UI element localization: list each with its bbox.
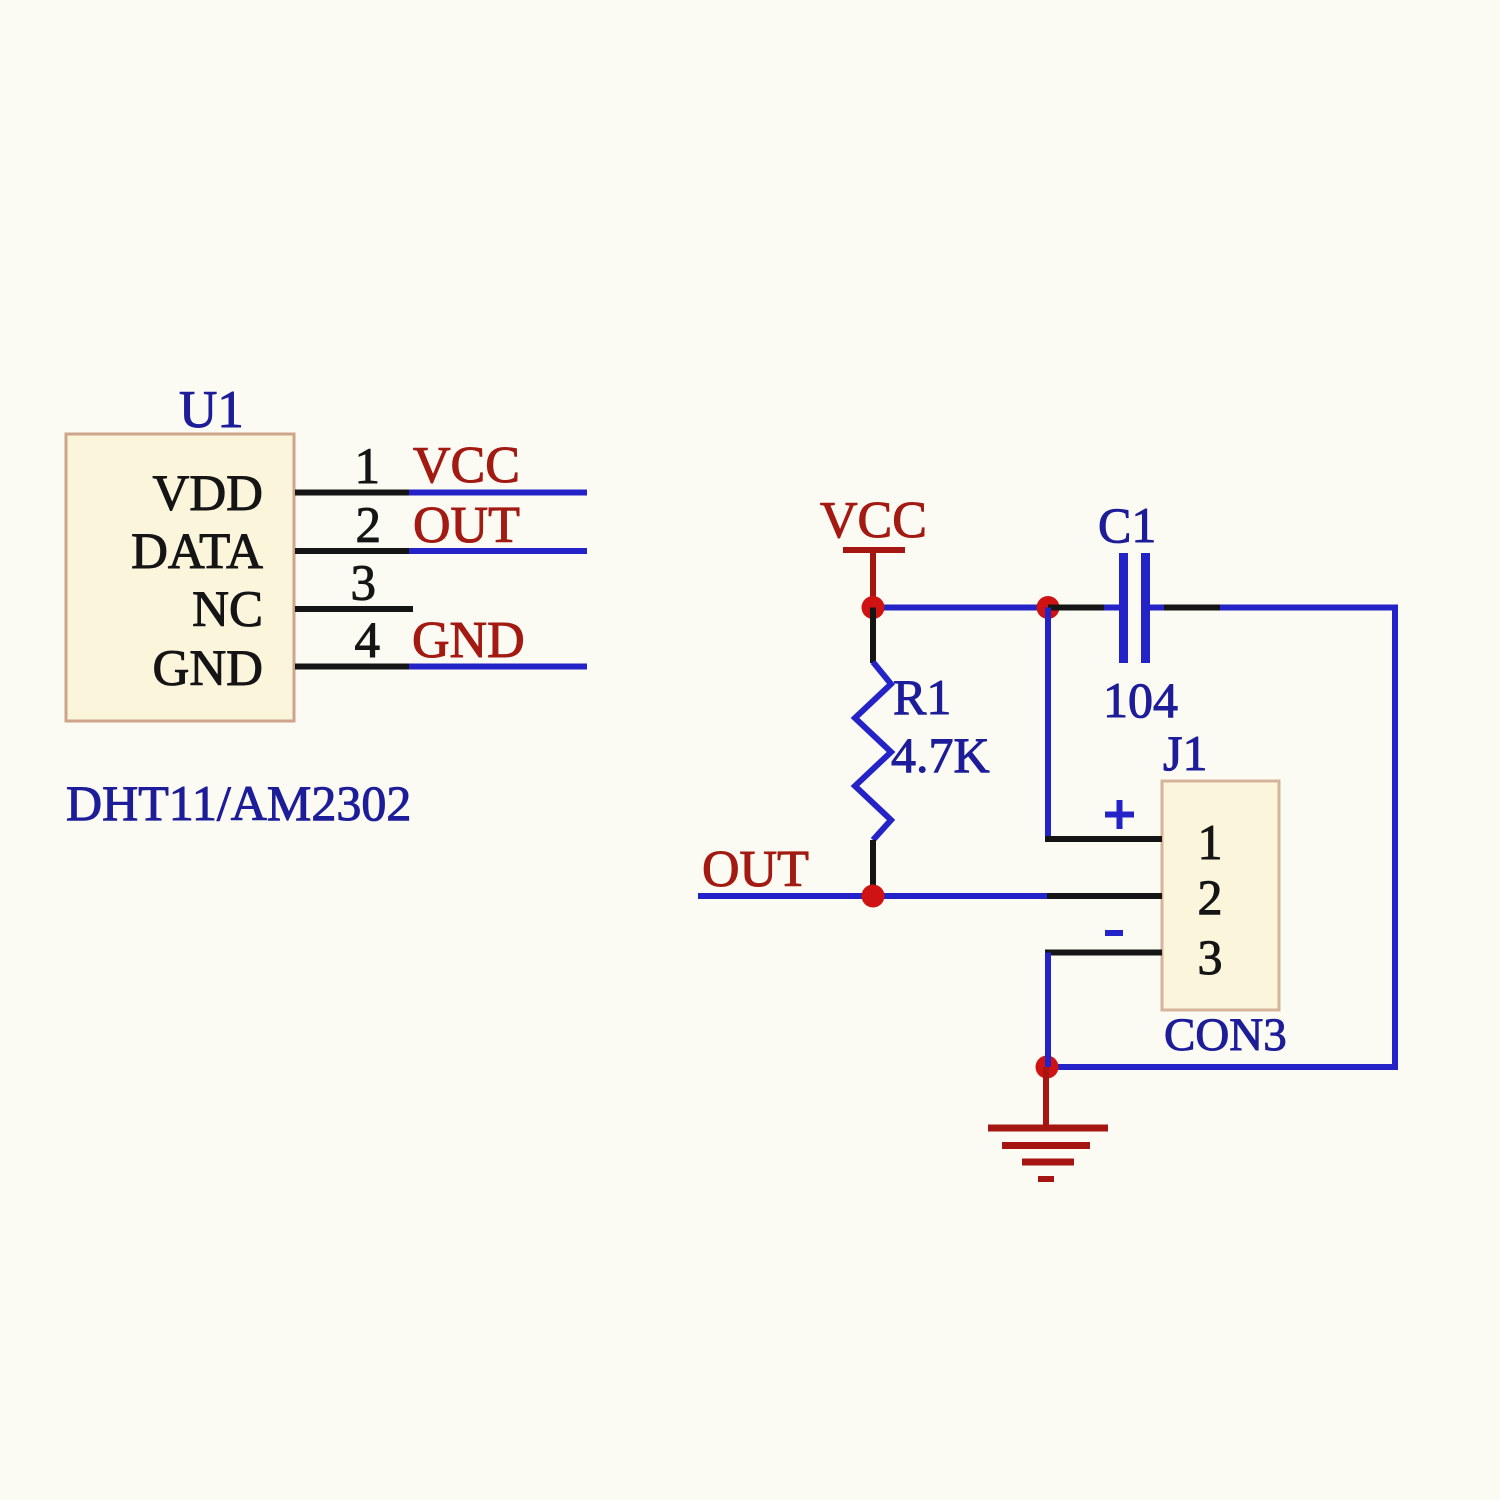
ground symbol bbox=[988, 1067, 1108, 1179]
wire VCC-C1 junction to J1 pin 1 bbox=[1045, 608, 1051, 840]
svg-text:CON3: CON3 bbox=[1164, 1009, 1287, 1061]
svg-text:OUT: OUT bbox=[702, 841, 809, 898]
U1 pin 4 lead bbox=[295, 664, 409, 670]
wire OUT net at U1 pin 2 bbox=[409, 548, 587, 554]
svg-text:NC: NC bbox=[192, 582, 263, 638]
junction node VCC-R1 bbox=[862, 596, 885, 619]
plus polarity mark bbox=[1105, 800, 1134, 829]
svg-text:1: 1 bbox=[1198, 814, 1223, 870]
svg-text:3: 3 bbox=[1198, 929, 1223, 985]
wire right vertical bbox=[1392, 605, 1398, 1068]
svg-text:3: 3 bbox=[351, 556, 377, 612]
minus polarity mark bbox=[1105, 930, 1123, 936]
svg-text:C1: C1 bbox=[1098, 497, 1156, 553]
junction node ground bbox=[1036, 1056, 1059, 1079]
wire bottom horizontal bbox=[1047, 1064, 1398, 1070]
svg-text:DATA: DATA bbox=[131, 524, 263, 580]
svg-text:104: 104 bbox=[1103, 672, 1178, 728]
U1 pin 3 lead bbox=[295, 606, 413, 612]
capacitor C1 left plate bbox=[1104, 553, 1124, 663]
wire top right bbox=[1220, 605, 1395, 611]
U1 pin 1 lead bbox=[295, 490, 409, 496]
svg-text:1: 1 bbox=[355, 439, 381, 495]
svg-text:VCC: VCC bbox=[413, 437, 520, 494]
J1 pin 2 lead bbox=[1047, 893, 1162, 899]
svg-text:GND: GND bbox=[412, 612, 525, 669]
svg-text:J1: J1 bbox=[1163, 725, 1207, 781]
wire OUT horizontal bbox=[698, 893, 1047, 899]
J1 pin 3 lead bbox=[1045, 950, 1162, 956]
resistor R1 bbox=[855, 662, 891, 840]
IC U1 body bbox=[66, 434, 294, 721]
capacitor C1 left lead bbox=[1048, 605, 1104, 611]
svg-text:VDD: VDD bbox=[153, 466, 264, 522]
svg-text:2: 2 bbox=[1198, 869, 1223, 925]
svg-text:DHT11/AM2302: DHT11/AM2302 bbox=[66, 775, 411, 831]
U1 pin 2 lead bbox=[295, 548, 409, 554]
connector J1 body bbox=[1162, 781, 1279, 1010]
wire VCC horizontal bbox=[873, 605, 1048, 611]
capacitor C1 right lead bbox=[1164, 605, 1220, 611]
svg-text:U1: U1 bbox=[179, 381, 244, 439]
svg-text:2: 2 bbox=[356, 498, 382, 554]
svg-text:OUT: OUT bbox=[413, 497, 520, 554]
VCC power symbol bbox=[843, 550, 905, 604]
wire GND net at U1 pin 4 bbox=[409, 664, 587, 670]
wire J1 pin 3 to ground bbox=[1045, 953, 1051, 1068]
capacitor C1 right plate bbox=[1146, 553, 1165, 663]
resistor R1 bottom lead bbox=[870, 840, 876, 896]
svg-text:4.7K: 4.7K bbox=[891, 727, 990, 783]
junction node OUT-R1 bbox=[862, 885, 885, 908]
wire VCC net at U1 pin 1 bbox=[409, 490, 587, 496]
svg-text:4: 4 bbox=[355, 613, 381, 669]
junction node VCC-C1 bbox=[1037, 596, 1060, 619]
svg-text:GND: GND bbox=[153, 641, 264, 697]
resistor R1 top lead bbox=[870, 608, 876, 664]
svg-text:R1: R1 bbox=[893, 669, 951, 725]
J1 pin 1 lead bbox=[1045, 836, 1162, 842]
svg-text:VCC: VCC bbox=[820, 492, 927, 549]
